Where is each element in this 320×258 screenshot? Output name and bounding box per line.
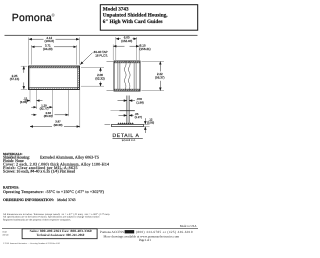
svg-text:d-3743: d-3743 xyxy=(2,234,9,237)
dim .05 (1.27) xyxy=(119,114,134,116)
dim .078 (1.98) xyxy=(118,100,136,102)
callout #4-40 TAP 16 PLCS. xyxy=(80,53,92,65)
side view top inner line xyxy=(114,62,140,64)
svg-text:Registered trademarks are the: Registered trademarks are the property o… xyxy=(3,218,71,221)
dim 2.58 (65.53) xyxy=(31,114,68,116)
dim 3.71 (94.23) xyxy=(32,46,77,48)
title text xyxy=(103,6,168,25)
front view outline xyxy=(29,66,80,90)
footer fine print xyxy=(3,213,110,221)
footer rule xyxy=(2,227,198,230)
svg-text:(65.53): (65.53) xyxy=(44,114,53,118)
svg-text:(98.30): (98.30) xyxy=(54,123,63,127)
svg-text:Model 3743: Model 3743 xyxy=(103,6,129,12)
svg-text:3743: 3743 xyxy=(2,231,7,234)
svg-text:Made in USA: Made in USA xyxy=(180,224,197,228)
header rule xyxy=(5,34,198,37)
svg-text:(1.98): (1.98) xyxy=(136,100,143,104)
svg-text:Technical Assistance: 800-241-: Technical Assistance: 800-241-2060 xyxy=(36,233,84,237)
dim 6.15 (156.21) xyxy=(113,45,139,47)
svg-text:Page 1 of 1: Page 1 of 1 xyxy=(139,238,151,242)
side view break line right xyxy=(129,61,131,90)
front view right inner line xyxy=(77,66,79,90)
dim .12 (3.05) detail extension lines xyxy=(144,124,150,126)
dim 2.22 (56.37) right of side view xyxy=(142,61,165,90)
footer doc number xyxy=(2,231,9,237)
footer accessware line xyxy=(100,230,193,242)
front view left inner line xyxy=(29,66,31,90)
svg-text:Pomona: Pomona xyxy=(12,13,52,24)
logo Pomona xyxy=(12,12,56,24)
detail crossbar left extension xyxy=(111,110,120,112)
dim 3.87 (98.30) xyxy=(30,126,80,128)
svg-text:6″ High With Card Guides: 6″ High With Card Guides xyxy=(103,19,163,25)
svg-text:(152.40): (152.40) xyxy=(121,39,132,43)
dim .12 (3.05) detail arrows xyxy=(144,118,146,133)
side view outline xyxy=(114,61,140,91)
detail slot right line xyxy=(128,96,130,124)
front view bottom inner line xyxy=(29,87,80,89)
svg-text:(52.32): (52.32) xyxy=(95,76,105,80)
side view break line left xyxy=(125,61,127,90)
side view top extension lines xyxy=(113,37,139,60)
svg-text:(56.37): (56.37) xyxy=(155,76,165,80)
svg-text:(1.27): (1.27) xyxy=(135,115,142,119)
detail slot left line xyxy=(126,96,128,124)
front view right wall hatch xyxy=(78,66,80,90)
dim .12 (3.05) xyxy=(25,100,43,102)
dim 4.12 extension lines xyxy=(29,37,80,64)
detail base serration xyxy=(118,123,134,125)
side view bottom inner line xyxy=(114,88,140,90)
svg-text:®: ® xyxy=(52,12,56,17)
dim 6.00 (152.40) xyxy=(116,38,137,40)
front view bottom cover hatch xyxy=(29,88,80,90)
side view inner wall right pair xyxy=(133,62,135,89)
svg-text:Screws: 16 each, #4-40 x 6.35: Screws: 16 each, #4-40 x 6.35 (1/4) Flat… xyxy=(3,168,75,173)
detail crossbar xyxy=(120,110,135,112)
svg-text:(3.05): (3.05) xyxy=(147,121,154,125)
ratings text xyxy=(3,186,105,194)
svg-text:(32.77): (32.77) xyxy=(40,107,49,111)
side view top cover hatch xyxy=(114,61,140,63)
footer phone box xyxy=(22,229,97,239)
svg-text:Unpainted Shielded Housing,: Unpainted Shielded Housing, xyxy=(103,13,168,19)
dim 1.29 (32.77) xyxy=(31,106,52,108)
detail bar left stub xyxy=(105,124,111,126)
svg-text:Operating Temperature: -55°C: Operating Temperature: -55°C to +150°C (… xyxy=(3,189,105,194)
side view bottom cover hatch xyxy=(114,89,140,91)
side view left stub top xyxy=(107,60,114,62)
front view top cover hatch xyxy=(29,66,80,68)
svg-text:(156.21): (156.21) xyxy=(140,47,151,51)
svg-text:Pomona ACCESS: Pomona ACCESS xyxy=(100,230,124,234)
dim 4.12 (104.6) xyxy=(29,38,80,40)
svg-text:16 PLCS.: 16 PLCS. xyxy=(95,54,108,58)
svg-text:(104.6): (104.6) xyxy=(45,39,55,43)
title block box xyxy=(100,5,197,31)
detail base bar xyxy=(112,124,144,126)
side view left stub bottom xyxy=(107,90,114,92)
front view top inner line xyxy=(29,67,80,69)
svg-text:(57.15): (57.15) xyxy=(10,77,20,81)
dim 2.06 (52.32) right of front view xyxy=(81,68,104,87)
dim 2.25 (57.15) left xyxy=(21,66,27,89)
bottom extension lines of front view xyxy=(30,87,80,128)
svg-text:(3.05): (3.05) xyxy=(20,100,27,104)
side view inner wall left pair xyxy=(117,62,119,89)
detail A label xyxy=(113,133,143,142)
svg-text:(94.23): (94.23) xyxy=(43,47,53,51)
svg-text:(800) 444-6785 or (425) 446-60: (800) 444-6785 or (425) 446-6010 xyxy=(136,230,193,234)
svg-text:SCALE 2=1: SCALE 2=1 xyxy=(122,139,136,142)
svg-text:ORDERING INFORMATION:Model 374: ORDERING INFORMATION:Model 3743 xyxy=(3,198,76,202)
svg-text:© 2001 Pomona Electronics — Dr: © 2001 Pomona Electronics — Drawing Numb… xyxy=(3,242,60,245)
